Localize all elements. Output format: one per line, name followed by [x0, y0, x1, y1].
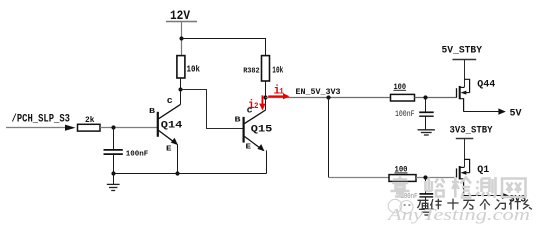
pin label c (Q14)	[167, 96, 173, 106]
refdes label Q1	[477, 164, 489, 175]
watermark big char 2 (yu)	[426, 178, 445, 197]
output arrow 5V	[498, 108, 505, 114]
watermark big char 3 (jian)	[452, 177, 472, 198]
annotation current i2 (red)	[248, 95, 266, 112]
refdes label Q15	[251, 124, 272, 136]
wire emitter ground rail	[114, 173, 267, 175]
power 12V label	[170, 9, 190, 23]
resistor 100 (5V gate)	[391, 94, 415, 101]
mosfet Q44	[457, 79, 470, 111]
node top cap junction	[423, 95, 427, 99]
svg-text:EN_5V_3V3: EN_5V_3V3	[296, 88, 341, 97]
transistor Q15	[244, 98, 267, 174]
pin label c (Q15)	[247, 105, 253, 115]
transistor Q14	[158, 90, 181, 174]
wire Q44 output	[464, 111, 500, 113]
wire Q1 output	[464, 195, 504, 197]
resistor 2k	[78, 124, 101, 131]
svg-text:E: E	[246, 144, 252, 152]
capacitor 100nF (bottom right)	[419, 178, 433, 210]
svg-text:2k: 2k	[85, 116, 95, 125]
svg-text:10k: 10k	[272, 65, 283, 75]
power 5V_STBY label	[442, 44, 483, 55]
watermark logo circles	[388, 199, 413, 213]
node Q14 collector junction	[179, 88, 183, 92]
svg-text:AnyTesting.com: AnyTesting.com	[387, 205, 530, 224]
svg-text:5V: 5V	[510, 109, 523, 120]
wire 2k to Q14 base	[100, 127, 157, 129]
watermark big char 4 (ce)	[476, 177, 496, 197]
wire 5V_STBY drop	[464, 60, 466, 88]
svg-text:Q14: Q14	[161, 120, 183, 132]
svg-text:5V_STBY: 5V_STBY	[442, 44, 483, 55]
pin label B (Q15)	[235, 116, 242, 124]
pin label E (Q15)	[246, 144, 252, 152]
power 5V_STBY bar	[453, 59, 477, 61]
value label 100nF (left)	[126, 150, 149, 158]
value label 100 (bottom)	[395, 166, 408, 175]
wire EN_5V_3V3 net	[266, 97, 391, 99]
capacitor 100nF (top right)	[419, 98, 434, 130]
svg-text:3V3_STBY: 3V3_STBY	[450, 125, 493, 136]
svg-text:B: B	[149, 108, 156, 116]
wire branch down to 3V3 gate resistor	[329, 98, 390, 178]
svg-text:100nF: 100nF	[126, 150, 149, 158]
value label 100 (top)	[394, 83, 407, 92]
watermark anytesting.com	[387, 205, 530, 224]
svg-text:Q44: Q44	[477, 79, 495, 90]
svg-text:2: 2	[254, 102, 259, 111]
output arrow 3V3	[502, 193, 509, 199]
node Q14 emitter rail junction	[175, 171, 179, 175]
svg-text:Q15: Q15	[251, 124, 272, 136]
wire 12V vertical drop	[181, 22, 183, 56]
ground (bottom right)	[419, 209, 434, 215]
node EN branch junction	[326, 95, 330, 99]
power 3V3_STBY bar	[456, 138, 474, 140]
net label 5V	[510, 109, 523, 120]
annotation current i1 (red)	[268, 83, 289, 99]
value label 10k (left)	[187, 65, 201, 75]
node 12V junction	[180, 37, 184, 41]
net label /PCH_SLP_S3	[12, 114, 71, 126]
mosfet Q1	[457, 159, 470, 196]
input signal arrow	[65, 125, 76, 131]
watermark big char 5 (wang)	[502, 179, 526, 198]
svg-text:/PCH_SLP_S3: /PCH_SLP_S3	[12, 114, 71, 126]
wire 3V3_STBY drop	[464, 139, 466, 168]
svg-text:100nF: 100nF	[395, 109, 415, 119]
svg-text:c: c	[167, 96, 173, 106]
svg-text:10k: 10k	[187, 65, 201, 75]
value label 2k	[85, 116, 95, 125]
node EN net junction at R382	[263, 95, 267, 99]
value label 100nF (top right)	[395, 109, 415, 119]
pin label E (Q14)	[166, 146, 172, 154]
power 3V3_STBY label	[450, 125, 493, 136]
svg-text:B: B	[235, 116, 242, 124]
svg-text:Q1: Q1	[477, 164, 489, 175]
wire collector junction to Q15 base	[181, 90, 243, 129]
refdes label Q14	[161, 120, 183, 132]
pin label B (Q14)	[149, 108, 156, 116]
resistor R382	[262, 56, 270, 98]
ground (top right)	[418, 130, 435, 135]
node emitter rail junction left	[111, 171, 115, 175]
capacitor 100nF (left)	[104, 128, 123, 174]
svg-text:R382: R382	[243, 67, 260, 75]
refdes label R382	[243, 67, 260, 75]
wire input net	[6, 127, 65, 129]
wire 12V top horizontal to R382	[182, 39, 266, 56]
resistor 10k (left pull-up)	[177, 56, 185, 90]
resistor 100 (3V3 gate)	[389, 175, 416, 182]
watermark big char 1 (jia)	[391, 177, 410, 198]
wire 100 to Q1 gate	[416, 177, 456, 179]
refdes label Q44	[477, 79, 495, 90]
value label 100nF (bottom right)	[401, 193, 418, 201]
svg-text:E: E	[166, 146, 172, 154]
wire 100 to Q44 gate	[415, 97, 457, 99]
watermark small text line (ying jian shi wan ge wei shen me)	[417, 199, 532, 210]
ground (left)	[107, 174, 120, 191]
net label 3V3	[509, 195, 526, 206]
node cap junction	[111, 125, 115, 129]
power 12V bar	[166, 21, 197, 23]
node bottom cap junction	[423, 175, 427, 179]
net label EN_5V_3V3	[296, 88, 341, 97]
value label 10k (R382)	[272, 65, 283, 75]
